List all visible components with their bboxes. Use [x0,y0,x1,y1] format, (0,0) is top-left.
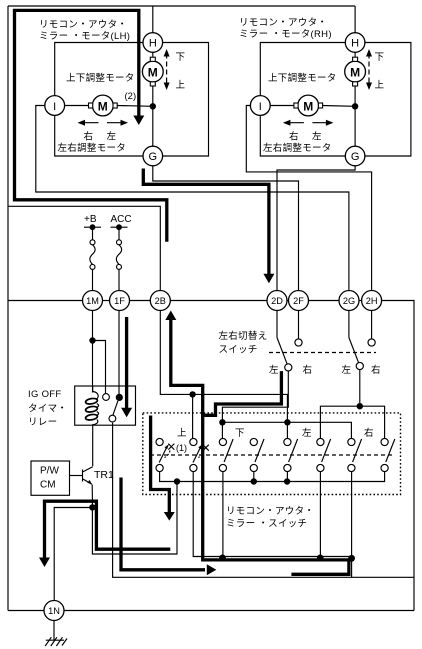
svg-text:右: 右 [364,427,374,439]
svg-text:(1): (1) [176,443,187,453]
wire drop to H LH [152,6,154,33]
svg-text:タイマ・: タイマ・ [28,404,67,415]
P/W CM box [31,461,70,495]
motor M up-down LH [142,61,163,82]
relay contact arm [113,401,118,415]
wire switch lower bus [160,472,385,482]
svg-text:リモコン・アウタ・: リモコン・アウタ・ [39,20,127,31]
switch col3 contacts [219,438,226,445]
connector 1N wire and ground [53,621,55,641]
wire module edge to 2B [8,206,160,290]
connector 1M [83,291,103,311]
arrow down 1F to relay [121,408,132,418]
wire H-M-G column LH [152,52,154,57]
svg-text:左右調整モータ: 左右調整モータ [263,142,332,154]
node thick bus col6 [317,555,324,562]
switch col5 contacts [284,438,291,445]
wire I RH to 2H [246,106,371,291]
node ACC terminal bar [111,226,128,228]
wire 1M to relay coil [92,311,94,393]
arrowheads up-down LH [164,49,170,57]
connector 1N [44,601,64,621]
wire col5 lower drop [286,472,288,482]
svg-text:+B: +B [84,214,97,225]
svg-text:左: 左 [312,131,322,143]
selector switch: 2G arm [348,311,350,338]
svg-text:H: H [149,38,157,50]
svg-text:右: 右 [289,131,299,143]
svg-text:下: 下 [176,52,186,63]
wire flow TR1 to ground [45,501,171,559]
svg-text:左: 左 [107,131,117,143]
svg-text:スイッチ: スイッチ [219,345,258,356]
wire switch col2 lower to bottom run [193,472,351,557]
node +B [90,224,96,230]
arrow down into 2D [263,274,274,284]
svg-text:CM: CM [40,480,56,491]
motor M left-right RH [298,95,319,116]
wire drop to H RH [354,6,356,33]
wire relay coil to TR1 collector [92,425,94,466]
contact arc col2 [198,451,204,458]
wire I to M horizontal RH [270,105,294,107]
selector contact circle right-pair [356,362,363,369]
svg-text:右: 右 [371,364,381,376]
svg-text:右: 右 [84,131,94,143]
module box connector row and right/bottom edges [8,300,83,302]
wire col4 lower drop [253,472,255,482]
wire drop to col2 upper [192,394,194,438]
arrow up-down dashed RH [368,54,370,86]
svg-text:リモコン・アウタ・: リモコン・アウタ・ [226,506,314,517]
wire flow 1F to relay [125,317,128,410]
switch col4 contacts [250,438,257,445]
connector 2F [289,291,309,311]
svg-text:ミラー ・モータ(LH): ミラー ・モータ(LH) [39,31,130,42]
node lower bus col4 [251,478,257,484]
arrow right relay to bus [207,564,217,575]
node thick bus col3 [219,555,226,562]
svg-text:左右調整モータ: 左右調整モータ [58,142,127,154]
svg-text:右: 右 [303,364,313,376]
wire col3 lower drop [222,472,224,559]
arrow up-down dashed LH [166,54,168,86]
svg-text:リモコン・アウタ・: リモコン・アウタ・ [239,18,327,29]
wire G RH to 2D [277,166,355,291]
node col2 feed [189,391,195,397]
svg-text:M: M [350,66,360,80]
wire selector right-pair output [359,370,361,407]
wire H-M-G column RH [354,52,356,57]
contact arc col1 [165,451,171,458]
relay contact circle upper [103,394,110,401]
svg-text:2D: 2D [271,296,283,306]
wire emitter node to switch box lower bus [92,482,177,555]
svg-text:M: M [98,100,108,114]
node top bus col5 [284,419,290,425]
svg-text:上: 上 [375,80,385,91]
svg-text:下: 下 [235,428,245,439]
svg-text:G: G [149,151,158,163]
node +B terminal bar [84,226,101,228]
node M-G junction RH [352,103,358,109]
mirror switch dotted box [143,413,401,495]
wire 1F to relay contact dot [118,311,120,395]
svg-text:1M: 1M [86,296,99,306]
wire switch top bus [222,422,351,438]
node M-G junction LH [150,103,156,109]
wire 2B feed to switch commons [160,311,287,439]
contact mark x col2 [203,445,209,451]
switch col8 contacts [381,438,388,445]
switch col7 contacts [348,438,355,445]
arrow down to ground path [39,558,50,568]
terminal G LH [143,146,163,166]
motor M up-down RH [345,61,366,82]
arrowheads left-right LH [78,120,86,126]
switch col2 contacts (up LH, operated) [190,438,197,445]
svg-text:(2): (2) [125,91,137,102]
relay IG OFF timer box [75,386,136,425]
svg-text:IG OFF: IG OFF [28,389,61,400]
node lower bus col5 [284,478,290,484]
arrowheads left-right RH [283,120,291,126]
wire col7 lower drop to return [351,472,353,578]
wire flow relay to switch bus [121,478,205,570]
motor direction arrows [80,54,369,123]
arrow left-right RH [285,122,304,124]
RH mirror motor box [260,43,345,96]
wire module left edge [7,6,9,611]
terminal I RH [250,96,270,116]
arrow down into LH motor [133,116,144,126]
wire I LH to 2G [36,106,349,291]
svg-text:上: 上 [176,80,186,91]
svg-text:ACC: ACC [111,214,132,225]
node lower bus riser [174,478,180,484]
wire G LH to 2F [153,166,299,291]
svg-text:上下調整モータ: 上下調整モータ [268,72,337,84]
svg-text:上: 上 [177,428,187,439]
arrowheads up-down RH [366,49,372,57]
arrow down out of switch [164,512,175,521]
svg-text:2F: 2F [293,296,304,306]
wire col6 lower drop [319,472,321,559]
svg-text:TR1: TR1 [94,469,114,481]
svg-text:ミラー ・モータ(RH): ミラー ・モータ(RH) [239,29,332,40]
svg-text:左: 左 [342,364,352,376]
connector 2H [362,291,382,311]
svg-text:2B: 2B [155,296,166,306]
ground symbol [46,639,64,641]
terminal I LH [45,96,65,116]
wire selector left-pair output [222,371,288,438]
switch col6 contacts [317,438,324,445]
terminal H LH [143,33,163,53]
connector circles [44,291,382,621]
transistor TR1 [82,470,84,482]
svg-text:1F: 1F [114,296,125,306]
wire emitter node to 1N [54,508,92,601]
svg-text:1N: 1N [48,606,60,616]
arrow left-right LH [80,122,99,124]
wire flow selector to switch [201,371,281,415]
wire top bus to both H terminals [8,5,355,7]
switch col1 contacts (up LH, operated) [156,438,163,445]
terminal H RH [345,33,365,53]
terminal G RH [345,146,365,166]
connector 1F [110,291,130,311]
svg-text:G: G [351,151,360,163]
wire relay contact return [113,423,414,578]
svg-text:I: I [53,101,56,113]
selector contact circle 2H [371,311,373,339]
motor M left-right LH [92,95,113,116]
node relay fixed contact [116,394,123,401]
node top bus col3 [219,419,225,425]
selector contact circle left-pair [285,364,292,371]
svg-text:左: 左 [269,364,279,376]
LH mirror motor box [55,43,144,96]
flow arrowheads [39,116,274,576]
connector 2B [150,291,170,311]
switch contact columns [150,353,395,472]
thick current flow paths [15,10,349,574]
selector mechanical link dashed [269,352,376,354]
svg-text:H: H [351,38,359,50]
wire P/W CM to TR1 base [70,475,83,477]
connector 2D [267,291,287,311]
connector 2G [339,291,359,311]
node ACC [116,224,122,230]
svg-text:2H: 2H [366,296,378,306]
wire I to M horizontal LH [65,105,90,107]
selector contact circle 2F [298,311,300,339]
relay coil [93,386,98,399]
svg-text:M: M [148,66,158,80]
node TR1 emitter junction [89,504,95,510]
svg-text:左: 左 [302,427,312,439]
relay contact circle lower [109,415,116,422]
svg-text:P/W: P/W [40,466,59,477]
wire flow from switch up to 2B [171,318,349,575]
switch mechanical link dashed [150,454,395,456]
contact mark x col1 [168,444,174,450]
wire TR1 emitter down [91,485,93,508]
fuse +B [92,227,94,240]
svg-text:下: 下 [375,52,385,63]
svg-text:I: I [259,101,262,113]
wire flow top-left loop to LH motor [15,10,167,241]
svg-text:リレー: リレー [28,417,57,428]
wire branch to relay contact [93,341,106,395]
svg-text:ミラー ・スイッチ: ミラー ・スイッチ [226,519,307,530]
fuse ACC [118,227,120,240]
svg-text:M: M [303,100,313,114]
svg-text:左右切替え: 左右切替え [219,330,268,342]
svg-text:2G: 2G [343,296,355,306]
node thick bus col7 [348,555,355,562]
selector switch: 2D arm [276,311,278,338]
svg-text:上下調整モータ: 上下調整モータ [66,72,135,84]
motor terminal circles [45,33,366,166]
arrow up to 2B [165,311,176,321]
wire flow to 2D [143,169,269,275]
node selector right output [357,403,363,409]
wire flow through switch col1 [151,416,170,514]
node 1M branch [89,337,95,343]
